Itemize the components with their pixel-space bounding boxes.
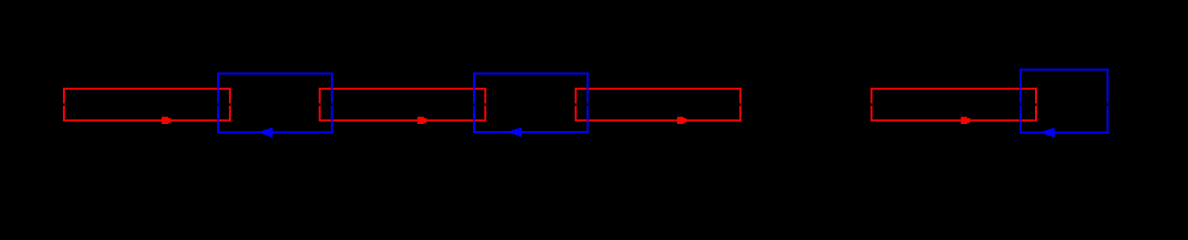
arrow on gene 2 (red, pointing right) <box>417 117 428 124</box>
gene box 2 (red, forward strand) <box>320 89 486 121</box>
gene box 1 (red, forward strand) <box>64 89 230 121</box>
arrow on gene 5 (blue, pointing left) <box>261 128 273 137</box>
arrow on gene 4 (red, pointing right) <box>961 117 972 124</box>
gene box 4 (red, forward strand) <box>872 89 1037 121</box>
gene box 7 (blue, reverse strand) <box>1021 70 1108 133</box>
arrow on gene 1 (red, pointing right) <box>162 117 173 124</box>
gene box 6 (blue, reverse strand) <box>474 74 588 133</box>
gene box 3 (red, forward strand) <box>576 89 741 121</box>
arrow on gene 7 (blue, pointing left) <box>1043 128 1055 137</box>
arrow on gene 6 (blue, pointing left) <box>510 128 522 137</box>
gene box 5 (blue, reverse strand) <box>218 74 332 133</box>
arrow on gene 3 (red, pointing right) <box>677 117 688 124</box>
genome axis line (black, drawn over boxes) <box>0 104 1188 106</box>
